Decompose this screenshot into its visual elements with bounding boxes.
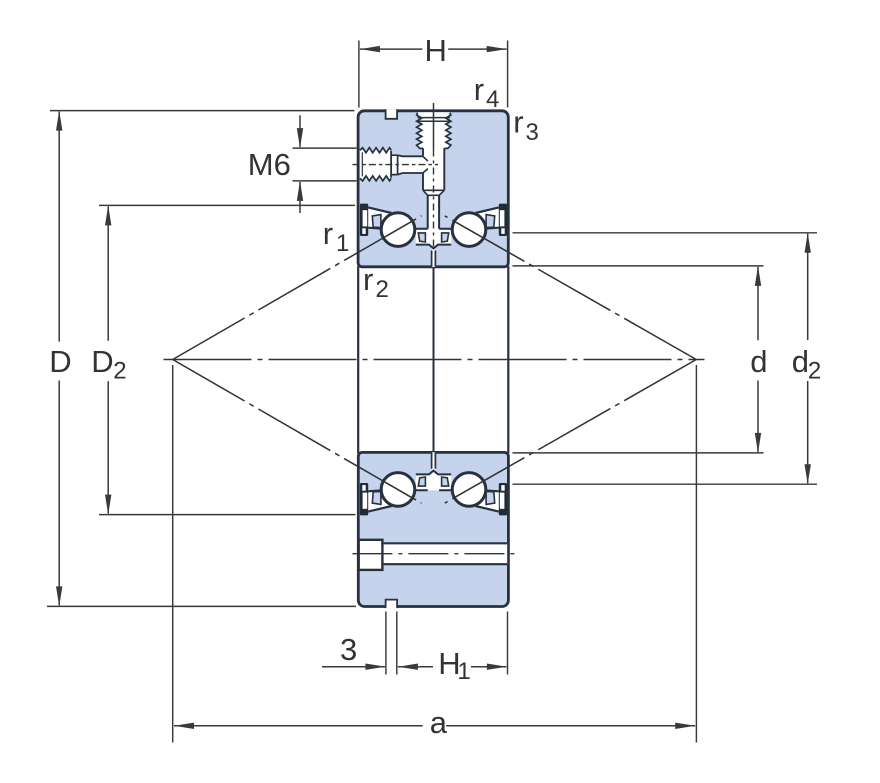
svg-text:2: 2 xyxy=(113,358,126,385)
left grease fitting M6 xyxy=(360,148,428,181)
dimension H1 xyxy=(398,612,508,686)
channel counterbore xyxy=(359,540,383,570)
svg-text:d: d xyxy=(792,344,809,379)
svg-text:D: D xyxy=(91,344,113,379)
top fitting centerline xyxy=(433,103,435,150)
middle band left edge xyxy=(357,266,359,454)
svg-text:r: r xyxy=(513,105,523,140)
label r4 xyxy=(474,72,500,113)
svg-text:1: 1 xyxy=(457,658,470,685)
svg-text:r: r xyxy=(474,72,484,107)
dimension 3 xyxy=(322,612,397,675)
middle band right edge xyxy=(507,266,509,454)
contact angle line upper-right xyxy=(445,216,697,360)
dimension d2 xyxy=(513,233,822,484)
svg-text:M6: M6 xyxy=(248,147,291,182)
upper section body xyxy=(358,111,508,267)
svg-text:2: 2 xyxy=(376,276,389,303)
svg-text:r: r xyxy=(323,216,333,251)
top grease fitting xyxy=(417,112,451,229)
svg-text:r: r xyxy=(363,262,373,297)
channel centerline xyxy=(352,553,515,555)
label r3 xyxy=(513,105,539,146)
left fitting centerline xyxy=(352,164,438,166)
dimension M6 xyxy=(248,115,357,213)
dimension H xyxy=(359,33,508,108)
bottom notch xyxy=(386,600,398,609)
contact angle line upper-left xyxy=(173,216,422,360)
dimension d xyxy=(513,266,768,453)
svg-text:D: D xyxy=(49,344,71,379)
contact angle line lower-left xyxy=(173,360,422,504)
bearing row lower-right half xyxy=(442,473,508,516)
lower inner-ring split gap xyxy=(432,452,436,470)
svg-text:3: 3 xyxy=(340,632,357,667)
dimension a xyxy=(173,365,697,743)
svg-text:2: 2 xyxy=(808,358,821,385)
svg-text:a: a xyxy=(430,705,448,740)
dimension D xyxy=(47,111,356,607)
contact angle line lower-right xyxy=(445,360,697,504)
bearing row upper-left half xyxy=(360,204,426,247)
bearing row lower-left half xyxy=(360,473,426,516)
svg-text:H: H xyxy=(425,33,447,68)
grease duct T lower xyxy=(415,471,453,491)
bearing row upper-right half xyxy=(442,204,508,247)
middle band center split xyxy=(433,267,435,453)
main horizontal centerline xyxy=(164,359,705,361)
label r1 xyxy=(323,216,350,257)
svg-text:d: d xyxy=(750,344,767,379)
svg-text:1: 1 xyxy=(336,230,349,257)
label r2 xyxy=(363,262,389,303)
upper inner-ring split gap xyxy=(432,249,436,267)
svg-text:4: 4 xyxy=(486,86,499,113)
grease duct T upper xyxy=(415,229,453,249)
dimension D2 xyxy=(91,205,355,514)
lower section body xyxy=(358,452,508,606)
svg-text:3: 3 xyxy=(526,119,539,146)
lubrication channel xyxy=(382,543,507,564)
top notch xyxy=(386,109,398,119)
